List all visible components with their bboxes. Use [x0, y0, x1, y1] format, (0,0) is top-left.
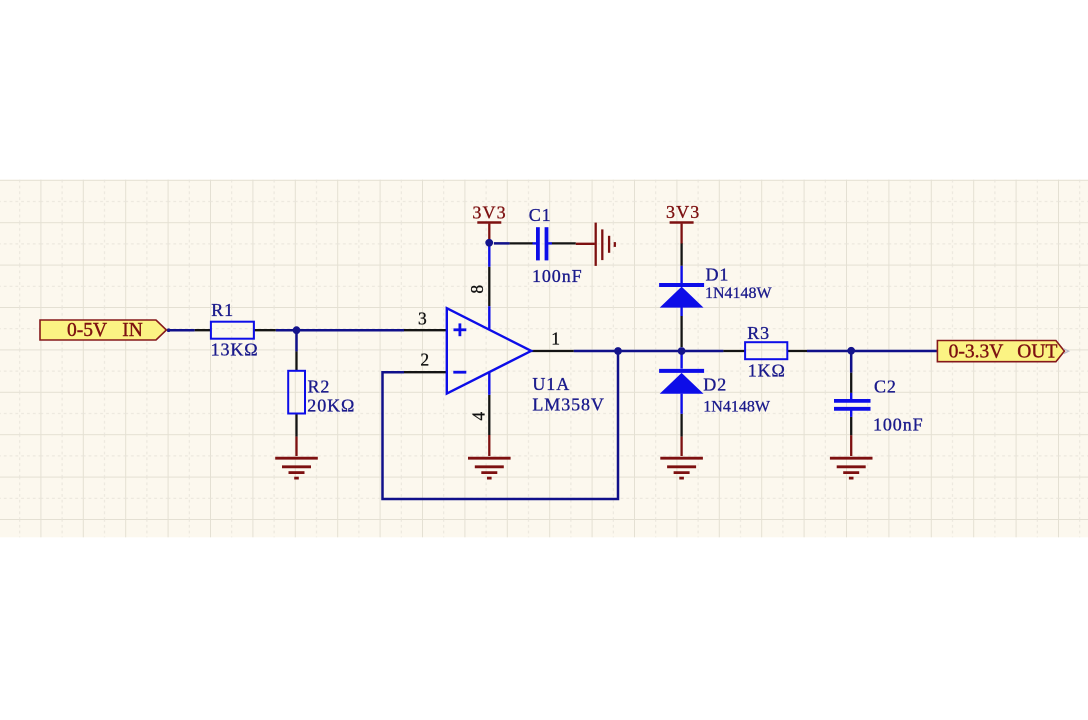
- svg-text:0-3.3V: 0-3.3V: [949, 342, 1004, 363]
- svg-text:1KΩ: 1KΩ: [748, 360, 786, 380]
- svg-text:4: 4: [469, 412, 489, 421]
- svg-text:1: 1: [551, 328, 560, 348]
- svg-text:R3: R3: [747, 323, 770, 343]
- svg-text:0-5V: 0-5V: [67, 320, 107, 341]
- svg-text:C2: C2: [874, 377, 897, 397]
- svg-text:R1: R1: [211, 300, 234, 320]
- svg-text:R2: R2: [308, 377, 331, 397]
- svg-text:LM358V: LM358V: [532, 395, 604, 415]
- svg-text:2: 2: [420, 350, 429, 370]
- svg-text:3: 3: [418, 308, 427, 328]
- svg-text:D2: D2: [703, 374, 727, 394]
- svg-text:OUT: OUT: [1017, 342, 1057, 363]
- svg-text:3V3: 3V3: [472, 202, 506, 222]
- svg-text:C1: C1: [529, 205, 552, 225]
- svg-text:13KΩ: 13KΩ: [211, 340, 259, 360]
- svg-text:1N4148W: 1N4148W: [705, 285, 773, 302]
- svg-text:IN: IN: [122, 320, 143, 341]
- svg-text:8: 8: [467, 285, 487, 294]
- svg-text:100nF: 100nF: [532, 266, 583, 286]
- svg-text:D1: D1: [706, 264, 730, 284]
- svg-text:100nF: 100nF: [873, 414, 924, 434]
- svg-text:1N4148W: 1N4148W: [703, 399, 771, 416]
- svg-text:U1A: U1A: [532, 374, 570, 394]
- svg-text:3V3: 3V3: [666, 202, 700, 222]
- svg-text:20KΩ: 20KΩ: [307, 396, 355, 416]
